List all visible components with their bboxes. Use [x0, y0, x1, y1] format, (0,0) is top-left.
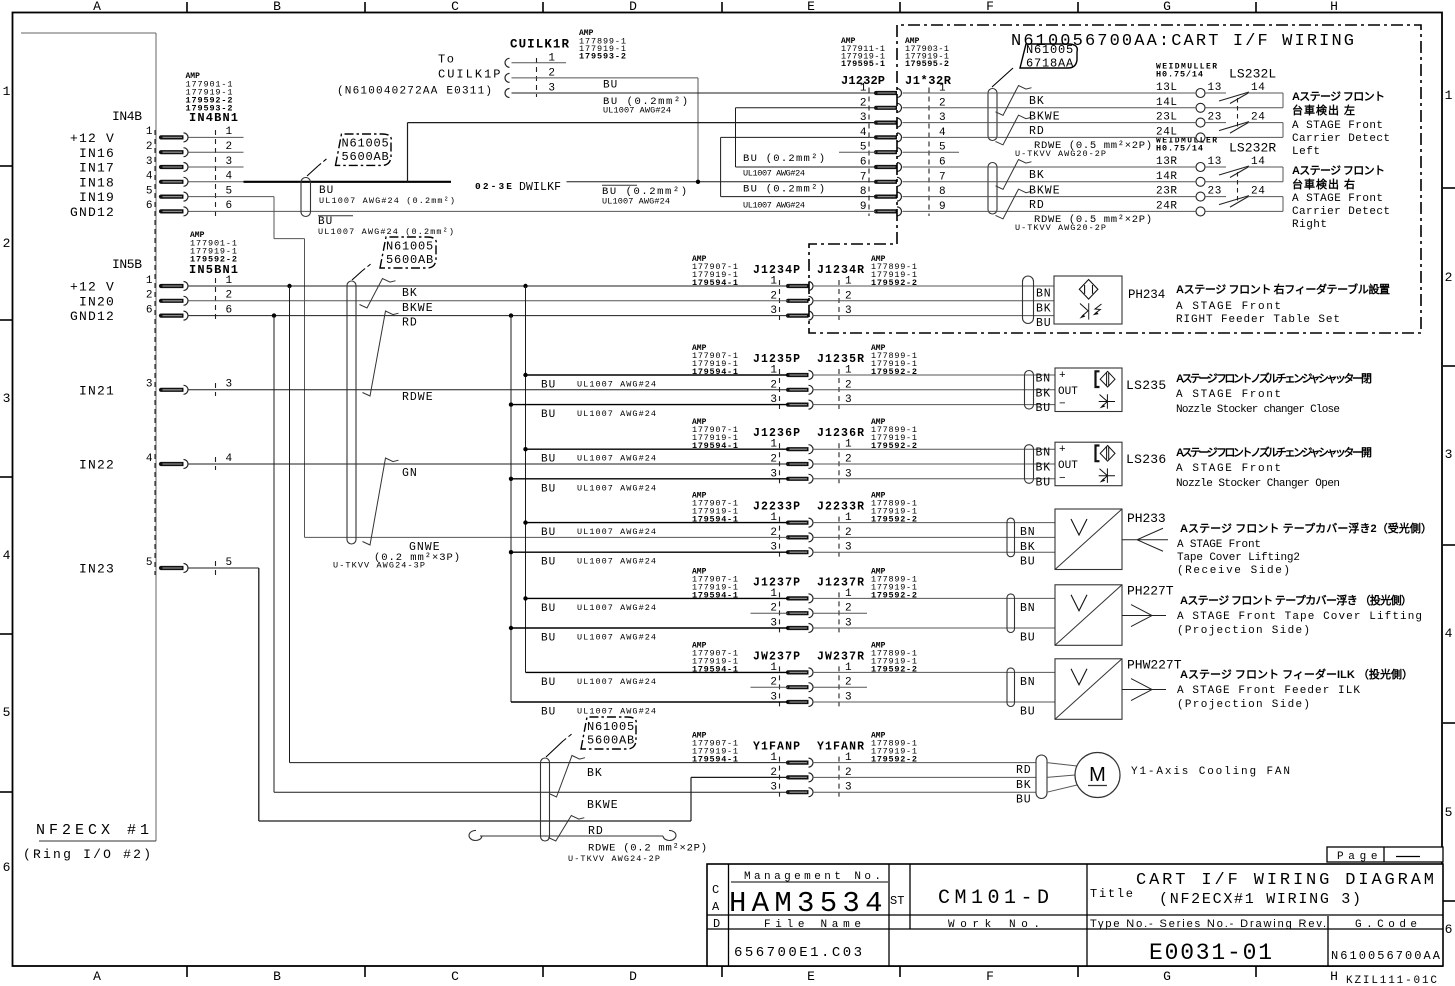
connector J1234P / J1234R: [692, 255, 917, 320]
connector JW237P / JW237R: [692, 641, 917, 706]
wire BU feed J1236 pin3: [511, 479, 788, 496]
svg-text:UL1007 AWG#24: UL1007 AWG#24: [577, 409, 656, 419]
svg-text:N61005: N61005: [386, 240, 434, 254]
svg-text:Aステージ フロント ノズルチェンジャシャッター 閉: Aステージ フロント ノズルチェンジャシャッター 閉: [1176, 371, 1372, 385]
svg-text:6: 6: [226, 200, 233, 212]
svg-text:BU: BU: [1020, 556, 1035, 569]
svg-text:H0.75/14: H0.75/14: [1156, 70, 1203, 80]
svg-text:GND12: GND12: [70, 205, 115, 220]
svg-text:4: 4: [226, 453, 233, 465]
svg-text:GND12: GND12: [70, 309, 115, 324]
svg-text:5600AB: 5600AB: [386, 253, 434, 267]
svg-text:Nozzle Stocker Changer Open: Nozzle Stocker Changer Open: [1176, 478, 1340, 490]
svg-text:C: C: [451, 969, 459, 984]
labels BU jumper pins2-6: [743, 153, 825, 179]
svg-text:Aステージ フロント: Aステージ フロント: [1292, 164, 1385, 177]
pair marker BK/BKWE fan: [549, 756, 585, 798]
svg-text:IN17: IN17: [79, 161, 115, 176]
svg-text:Type No.- Series No.- Drawing: Type No.- Series No.- Drawing Rev.: [1090, 918, 1326, 930]
svg-text:1: 1: [226, 275, 233, 287]
svg-text:02-3E: 02-3E: [475, 181, 512, 192]
svg-text:RD: RD: [402, 317, 418, 330]
svg-text:UL1007 AWG#24: UL1007 AWG#24: [577, 707, 656, 717]
svg-text:Carrier Detect: Carrier Detect: [1292, 133, 1390, 145]
svg-text:BU (0.2mm²): BU (0.2mm²): [743, 184, 825, 196]
svg-text:13L: 13L: [1156, 82, 1178, 94]
svg-text:A STAGE Front Tape Cover Lifti: A STAGE Front Tape Cover Lifting: [1177, 611, 1422, 623]
svg-text:UL1007 AWG#24: UL1007 AWG#24: [577, 454, 656, 464]
connector J2233P / J2233R: [692, 492, 917, 557]
ferrite label N61005 5600AB: [307, 134, 391, 176]
svg-text:U-TKVV AWG24-2P: U-TKVV AWG24-2P: [568, 854, 660, 864]
svg-text:BU: BU: [1020, 706, 1035, 719]
pair marker RD/RDWE: [363, 311, 399, 396]
svg-text:13R: 13R: [1156, 156, 1178, 168]
svg-text:LS235: LS235: [1126, 378, 1167, 393]
svg-text:CM101-D: CM101-D: [938, 887, 1049, 910]
svg-text:IN21: IN21: [79, 383, 115, 398]
title block: [707, 864, 1443, 966]
svg-text:23R: 23R: [1156, 186, 1178, 198]
ferrite label N61005 5600AB (Y1FAN): [546, 717, 636, 757]
svg-text:24R: 24R: [1156, 200, 1178, 212]
wires J1232 to LS232R: [903, 167, 1197, 211]
wire labels BU UL1007 (IN18): [319, 185, 455, 207]
svg-text:NF2ECX #1: NF2ECX #1: [36, 822, 149, 839]
connector J1232P / J1*32R: [841, 37, 952, 216]
svg-text:U-TKVV AWG20-2P: U-TKVV AWG20-2P: [1015, 223, 1106, 233]
svg-text:23: 23: [1208, 112, 1222, 124]
connector J1236P / J1236R: [692, 418, 917, 483]
svg-text:PH234: PH234: [1128, 288, 1166, 302]
motor Y1-Axis cooling fan: [813, 753, 1291, 807]
svg-text:BN: BN: [1036, 288, 1051, 301]
svg-text:BU: BU: [541, 454, 556, 466]
svg-text:+: +: [1059, 444, 1066, 456]
svg-text:IN22: IN22: [79, 458, 115, 473]
wire IN20 to J1234 pin2: [189, 300, 789, 302]
connector Y1FANP / Y1FANR: [692, 732, 917, 797]
wire BN feed J1236 pin1: [526, 449, 789, 466]
svg-text:N61005: N61005: [587, 720, 635, 734]
svg-text:J1236R: J1236R: [817, 427, 864, 440]
svg-text:4: 4: [146, 453, 153, 465]
svg-text:LS236: LS236: [1126, 452, 1167, 467]
wire BN feed J1235 pin1: [526, 375, 789, 392]
svg-text:GN: GN: [402, 467, 418, 480]
wire labels BU UL1007 (GND12): [318, 216, 454, 237]
svg-text:3: 3: [3, 391, 11, 406]
svg-text:5600AB: 5600AB: [342, 150, 390, 164]
svg-text:F: F: [986, 969, 994, 984]
svg-text:5: 5: [3, 705, 11, 720]
wire stub J1237 pin2: [751, 612, 868, 614]
photoelectric sensor LS236: [813, 442, 1168, 489]
svg-text:BU: BU: [541, 380, 556, 392]
photoelectric sensor LS235: [813, 368, 1168, 415]
svg-text:1: 1: [3, 84, 11, 99]
svg-text:D: D: [629, 969, 637, 984]
unit NF2ECX #1 boundary: [21, 33, 156, 862]
svg-text:ST: ST: [890, 894, 904, 908]
svg-text:BU: BU: [541, 707, 556, 719]
wire BU feed J1235 pin3: [511, 405, 788, 422]
svg-text:+: +: [1059, 370, 1066, 382]
ferrite core sheath LS232L cable: [988, 89, 997, 141]
svg-text:3: 3: [146, 379, 153, 391]
svg-text:2: 2: [226, 290, 233, 302]
svg-text:C: C: [451, 0, 459, 14]
svg-text:CUILK1P: CUILK1P: [438, 68, 502, 82]
svg-text:J2233R: J2233R: [817, 501, 864, 514]
svg-text:BK: BK: [1029, 95, 1045, 108]
svg-text:179595-2: 179595-2: [905, 59, 949, 69]
svg-text:B: B: [273, 0, 281, 14]
wires J1232 to LS232L: [903, 93, 1197, 137]
svg-text:BKWE: BKWE: [402, 302, 434, 315]
wire IN19 to J2233 pin2: [189, 197, 789, 538]
wire IN23 to Y1FAN RD: [189, 568, 789, 821]
svg-text:H0.75/14: H0.75/14: [1156, 144, 1203, 154]
svg-text:6: 6: [146, 200, 153, 212]
svg-text:H: H: [1330, 0, 1338, 14]
svg-text:H: H: [1330, 969, 1338, 984]
ferrite core sheath Y1FAN cable: [541, 758, 550, 841]
svg-text:IN20: IN20: [79, 294, 115, 309]
svg-text:BU: BU: [541, 603, 556, 615]
svg-text:3: 3: [146, 156, 153, 168]
svg-text:23L: 23L: [1156, 112, 1178, 124]
svg-text:BU: BU: [541, 633, 556, 645]
svg-text:Tape Cover Lifting2: Tape Cover Lifting2: [1177, 552, 1300, 564]
svg-text:BKWE: BKWE: [1029, 110, 1061, 123]
photo sensor PHW227T: [813, 657, 1183, 719]
svg-text:UL1007 AWG#24: UL1007 AWG#24: [577, 527, 656, 537]
svg-text:BU: BU: [541, 483, 556, 495]
svg-text:UL1007 AWG#24: UL1007 AWG#24: [577, 603, 656, 613]
svg-text:CART I/F WIRING DIAGRAM: CART I/F WIRING DIAGRAM: [1136, 871, 1434, 890]
wire jumper J1232 pin2-pin6: [736, 108, 877, 167]
svg-text:F: F: [986, 0, 994, 14]
svg-text:4: 4: [1445, 626, 1453, 641]
svg-text:23: 23: [1208, 186, 1222, 198]
svg-text:UL1007 AWG#24: UL1007 AWG#24: [577, 633, 656, 643]
svg-text:BK: BK: [402, 287, 418, 300]
svg-text:Nozzle Stocker changer Close: Nozzle Stocker changer Close: [1176, 404, 1340, 416]
svg-text:4: 4: [3, 548, 11, 563]
svg-text:BU: BU: [541, 557, 556, 569]
svg-text:(Projection Side): (Projection Side): [1177, 625, 1310, 637]
wire IN16 stub: [189, 151, 244, 153]
ferrite core sheath IN5B cable: [347, 281, 356, 544]
svg-text:A: A: [93, 969, 101, 984]
svg-text:RD: RD: [1029, 125, 1045, 138]
svg-text:A STAGE Front: A STAGE Front: [1176, 389, 1281, 401]
wire GND12 IN4B to J1232 pin9: [189, 210, 877, 212]
limit switch LS232L: [1156, 63, 1283, 142]
pair marker GN/GNWE: [363, 458, 399, 545]
svg-text:RD: RD: [1016, 764, 1031, 777]
description LS235: [1176, 371, 1372, 416]
svg-text:E: E: [807, 969, 815, 984]
svg-text:13: 13: [1208, 156, 1222, 168]
description PH234: [1176, 282, 1390, 326]
svg-text:A STAGE Front: A STAGE Front: [1176, 463, 1281, 475]
svg-text:UL1007 AWG#24: UL1007 AWG#24: [743, 169, 805, 179]
wire stub JW237 pin2: [751, 686, 868, 688]
svg-text:1: 1: [226, 126, 233, 138]
svg-text:Aステージ フロント テープカバー浮き （投光側）: Aステージ フロント テープカバー浮き （投光側）: [1180, 593, 1412, 607]
labels BU 0.2mm DWILKF: [602, 185, 687, 206]
label BU wire2: [603, 80, 618, 92]
svg-text:A STAGE Front: A STAGE Front: [1292, 120, 1383, 132]
svg-text:IN19: IN19: [79, 190, 115, 205]
svg-text:RIGHT Feeder Table Set: RIGHT Feeder Table Set: [1176, 314, 1340, 326]
svg-text:B: B: [273, 969, 281, 984]
labels BU jumper pins4-8: [743, 184, 825, 211]
svg-text:IN4B: IN4B: [112, 109, 142, 124]
svg-text:LS232R: LS232R: [1229, 141, 1277, 156]
description PH233: [1177, 521, 1432, 577]
svg-text:BK: BK: [1036, 302, 1051, 315]
svg-text:IN5B: IN5B: [112, 257, 142, 272]
svg-text:J1234R: J1234R: [817, 264, 864, 277]
svg-text:−: −: [1059, 473, 1066, 485]
svg-text:6: 6: [1445, 922, 1453, 937]
svg-text:6: 6: [226, 304, 233, 316]
svg-text:4: 4: [226, 171, 233, 183]
svg-text:A STAGE Front: A STAGE Front: [1177, 539, 1261, 551]
svg-text:UL1007 AWG#24: UL1007 AWG#24: [602, 197, 670, 207]
svg-text:Aステージ フロント テープカバー浮き2（受光側）: Aステージ フロント テープカバー浮き2（受光側）: [1180, 521, 1432, 535]
svg-text:BU: BU: [1020, 632, 1035, 645]
drawing number KZIL111-01C: [1346, 975, 1437, 986]
wire BU feed JW237 pin3: [511, 702, 788, 719]
page box: [1327, 847, 1443, 863]
svg-text:KZIL111-01C: KZIL111-01C: [1346, 975, 1437, 986]
svg-text:BN: BN: [1020, 602, 1035, 615]
svg-text:BN: BN: [1036, 447, 1051, 460]
pair marker BK/BKWE: [360, 279, 396, 309]
svg-text:Aステージ フロント: Aステージ フロント: [1292, 90, 1385, 103]
svg-text:3: 3: [1445, 447, 1453, 462]
svg-text:BU (0.2mm²): BU (0.2mm²): [743, 153, 825, 165]
svg-text:+12 V: +12 V: [70, 131, 115, 146]
ferrite label N61005 5600AB (IN5B): [352, 237, 436, 280]
svg-text:UL1007 AWG#24: UL1007 AWG#24: [577, 380, 656, 390]
label 02-3E DWILKF: [475, 181, 563, 194]
svg-text:24: 24: [1251, 112, 1265, 124]
svg-text:OUT: OUT: [1058, 386, 1078, 398]
svg-text:6: 6: [146, 304, 153, 316]
description LS232L: [1292, 90, 1390, 158]
svg-text:HAM3534: HAM3534: [729, 887, 886, 920]
svg-text:PH227T: PH227T: [1127, 583, 1174, 598]
wire IN22 to J1236 pin2: [189, 463, 789, 465]
svg-text:BU: BU: [1016, 794, 1031, 807]
wire CUILK1R pin1 stub: [512, 62, 567, 64]
svg-text:179595-1: 179595-1: [841, 59, 885, 69]
svg-text:Y1FANR: Y1FANR: [817, 741, 864, 754]
svg-text:1: 1: [146, 275, 153, 287]
svg-text:UL1007 AWG#24: UL1007 AWG#24: [603, 106, 671, 116]
svg-text:5: 5: [226, 185, 233, 197]
svg-text:BK: BK: [587, 767, 603, 780]
svg-text:2: 2: [3, 236, 11, 251]
boundary box N610056700AA CART I/F WIRING: [809, 25, 1421, 333]
connector IN4B: [70, 72, 238, 575]
wire BK branch +12V to Y1FAN pin1: [290, 286, 789, 763]
wire jumper J1232 pin4-pin8: [721, 137, 876, 196]
wire GND12 IN5B to J1234 pin3: [189, 313, 789, 317]
photo sensor PH233: [813, 509, 1169, 570]
pair marker RD/RDWE fan: [548, 816, 584, 842]
svg-text:BU: BU: [603, 80, 618, 92]
svg-text:LS232L: LS232L: [1229, 67, 1277, 82]
svg-text:BU: BU: [541, 527, 556, 539]
svg-text:DWILKF: DWILKF: [519, 181, 563, 194]
wire color labels IN5B cable: [333, 287, 460, 571]
svg-text:N61005: N61005: [1026, 43, 1074, 57]
svg-text:BU: BU: [1036, 317, 1051, 330]
svg-text:A STAGE Front: A STAGE Front: [1292, 193, 1383, 205]
bus +12V to sensor pin1 feeds: [523, 286, 527, 672]
wire BN feed J1237 pin1: [526, 598, 789, 615]
svg-text:UL1007 AWG#24: UL1007 AWG#24: [577, 677, 656, 687]
svg-text:BK: BK: [1029, 169, 1045, 182]
svg-text:BU: BU: [1036, 476, 1051, 489]
ferrite core sheath IN18/GND12: [301, 178, 311, 217]
svg-text:BN: BN: [1036, 373, 1051, 386]
svg-text:2: 2: [146, 290, 153, 302]
svg-text:UL1007 AWG#24: UL1007 AWG#24: [577, 483, 656, 493]
svg-text:IN23: IN23: [79, 562, 115, 577]
svg-text:BK: BK: [1020, 541, 1035, 554]
pair markers and labels LS232L cable: [996, 86, 1153, 159]
svg-text:5: 5: [146, 557, 153, 569]
svg-text:Carrier Detect: Carrier Detect: [1292, 206, 1390, 218]
svg-text:5: 5: [1445, 805, 1453, 820]
svg-text:RD: RD: [1029, 199, 1045, 212]
svg-text:−: −: [1059, 399, 1066, 411]
svg-text:D: D: [713, 917, 720, 931]
svg-text:5600AB: 5600AB: [587, 734, 635, 748]
svg-text:N61005: N61005: [342, 137, 390, 151]
wire BU feed J1237 pin3: [511, 628, 788, 645]
connector J1235P / J1235R: [692, 344, 917, 409]
ferrite core sheath LS232R cable: [988, 163, 997, 215]
pair markers and labels LS232R cable: [996, 160, 1153, 233]
svg-text:UL1007 AWG#24: UL1007 AWG#24: [577, 557, 656, 567]
svg-text:BU: BU: [541, 409, 556, 421]
svg-text:U-TKVV AWG24-3P: U-TKVV AWG24-3P: [333, 561, 425, 571]
svg-text:179593-2: 179593-2: [579, 52, 626, 62]
svg-text:J1235R: J1235R: [817, 353, 864, 366]
svg-text:14L: 14L: [1156, 97, 1178, 109]
wire J1232 pin5 stub: [839, 151, 959, 153]
description PHW227T: [1177, 667, 1413, 711]
svg-text:BU: BU: [1036, 402, 1051, 415]
svg-text:G: G: [1163, 0, 1171, 14]
svg-text:(Projection Side): (Projection Side): [1177, 699, 1310, 711]
svg-text:BU: BU: [541, 677, 556, 689]
svg-text:(NF2ECX#1 WIRING 3): (NF2ECX#1 WIRING 3): [1159, 891, 1361, 908]
svg-text:RD: RD: [588, 825, 604, 838]
svg-text:BK: BK: [1016, 779, 1031, 792]
wire IN5B +12V to J1234 pin1: [189, 284, 789, 288]
svg-text:File Name: File Name: [764, 919, 861, 931]
svg-text:BKWE: BKWE: [587, 799, 619, 812]
wire CUILK1R pin3 to J1232 pin1: [512, 92, 877, 94]
svg-text:To: To: [438, 53, 455, 67]
wire IN18 / 02-3E DWILKF net: [189, 123, 877, 184]
svg-text:14R: 14R: [1156, 171, 1178, 183]
svg-text:2: 2: [146, 141, 153, 153]
svg-text:A: A: [93, 0, 101, 14]
svg-text:Left: Left: [1292, 146, 1320, 158]
wire IN17 stub: [189, 166, 244, 168]
wire IN21 to J1235 pin2: [189, 389, 789, 391]
photo sensor PH234: [813, 276, 1167, 330]
svg-text:4: 4: [146, 171, 153, 183]
wire BU feed J2233 pin3: [511, 552, 788, 569]
svg-text:OUT: OUT: [1058, 460, 1078, 472]
svg-text:+12 V: +12 V: [70, 280, 115, 295]
svg-text:BKWE: BKWE: [1029, 184, 1061, 197]
svg-text:2: 2: [226, 141, 233, 153]
svg-text:Right: Right: [1292, 219, 1327, 231]
svg-text:1: 1: [146, 126, 153, 138]
svg-text:U-TKVV AWG20-2P: U-TKVV AWG20-2P: [1015, 149, 1106, 159]
svg-text:BN: BN: [1020, 526, 1035, 539]
svg-text:UL1007 AWG#24 (0.2mm²): UL1007 AWG#24 (0.2mm²): [319, 196, 455, 206]
svg-text:BK: BK: [1036, 462, 1051, 475]
svg-text:A: A: [712, 900, 720, 914]
svg-text:RDWE: RDWE: [402, 391, 434, 404]
svg-text:6: 6: [3, 860, 11, 875]
svg-text:5: 5: [146, 185, 153, 197]
svg-text:3: 3: [226, 156, 233, 168]
svg-text:Aステージ フロント ノズルチェンジャシャッター 開: Aステージ フロント ノズルチェンジャシャッター 開: [1176, 445, 1372, 459]
svg-text:J1237R: J1237R: [817, 576, 864, 589]
svg-text:6718AA: 6718AA: [1026, 57, 1074, 71]
svg-text:Title: Title: [1090, 887, 1133, 901]
svg-text:5: 5: [226, 557, 233, 569]
description PH227T: [1177, 593, 1422, 637]
svg-text:E0031-01: E0031-01: [1149, 940, 1272, 966]
svg-text:UL1007 AWG#24: UL1007 AWG#24: [743, 201, 805, 211]
label BU 0.2mm wire3: [603, 96, 688, 116]
photo sensor PH227T: [813, 583, 1175, 645]
svg-text:24: 24: [1251, 186, 1265, 198]
wire IN4B +12V stub: [189, 136, 244, 138]
connector J1237P / J1237R: [692, 567, 917, 632]
svg-text:PHW227T: PHW227T: [1127, 657, 1182, 672]
svg-text:Aステージ フロント 右フィーダテーブル設置: Aステージ フロント 右フィーダテーブル設置: [1176, 282, 1390, 296]
svg-text:RDWE (0.2 mm²×2P): RDWE (0.2 mm²×2P): [588, 843, 707, 855]
wire BKWE branch GND12 to Y1FAN pin3: [274, 316, 788, 793]
svg-text:IN18: IN18: [79, 175, 115, 190]
svg-text:1: 1: [1445, 88, 1453, 103]
connector CUILK1R: [337, 29, 626, 98]
svg-text:Aステージ フロント フィーダーILK （投光側）: Aステージ フロント フィーダーILK （投光側）: [1180, 667, 1413, 681]
svg-text:E: E: [807, 0, 815, 14]
limit switch LS232R: [1156, 137, 1283, 216]
wire BN feed JW237 pin1: [526, 672, 789, 689]
svg-text:PH233: PH233: [1127, 511, 1167, 526]
svg-text:D: D: [629, 0, 637, 14]
svg-text:UL1007 AWG#24 (0.2mm²): UL1007 AWG#24 (0.2mm²): [318, 227, 454, 237]
